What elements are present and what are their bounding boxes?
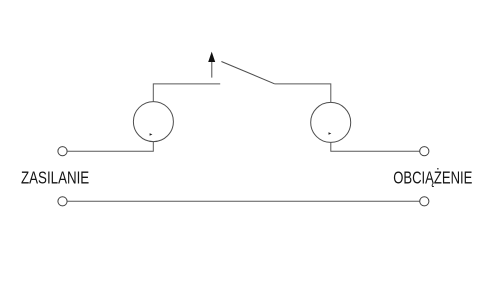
- switch S1 actuation arrow shaft: [211, 62, 213, 78]
- terminal node supply top: [58, 147, 67, 156]
- svg-text:OBCIĄŻENIE: OBCIĄŻENIE: [393, 168, 472, 188]
- lamp L1 inner mark: [150, 133, 153, 136]
- terminal node load top: [420, 147, 429, 156]
- wire switch right contact to lamp L2 top: [275, 84, 331, 103]
- lamp L2 inner mark: [329, 132, 332, 135]
- wire supply top to lamp L1 bottom: [67, 142, 153, 152]
- lamp L2: [311, 102, 351, 142]
- svg-text:ZASILANIE: ZASILANIE: [21, 168, 89, 188]
- switch S1 blade: [221, 62, 274, 84]
- lamp L1: [133, 102, 173, 142]
- switch S1 actuation arrow head: [208, 52, 215, 62]
- terminal node load bottom: [420, 197, 429, 206]
- wire bottom return: [67, 200, 420, 202]
- wire lamp L2 bottom to load top terminal: [331, 142, 420, 151]
- terminal node supply bottom: [58, 197, 67, 206]
- wire lamp L1 top to switch left contact: [153, 84, 220, 102]
